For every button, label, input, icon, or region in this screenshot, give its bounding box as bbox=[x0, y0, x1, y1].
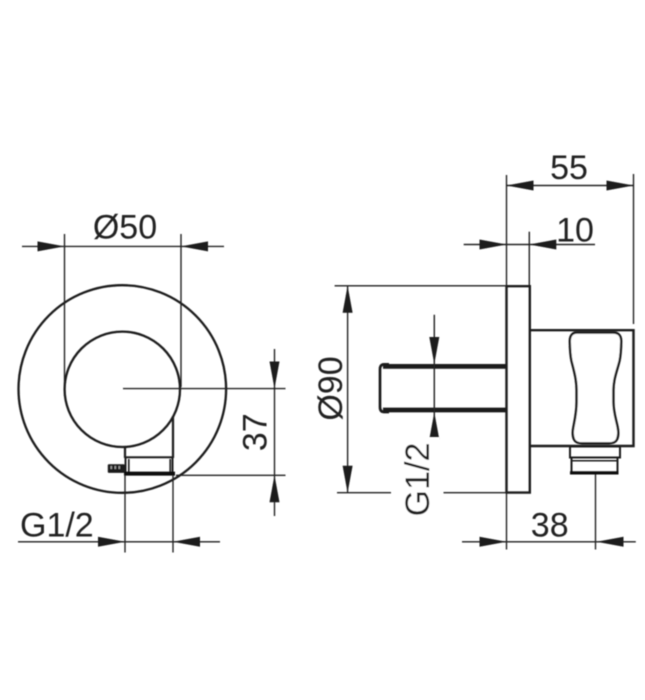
svg-text:Ø90: Ø90 bbox=[312, 356, 350, 420]
svg-text:Ø50: Ø50 bbox=[93, 208, 157, 246]
svg-text:10: 10 bbox=[556, 212, 594, 250]
svg-text:G1/2: G1/2 bbox=[20, 506, 94, 544]
svg-text:38: 38 bbox=[531, 507, 569, 545]
svg-text:G1/2: G1/2 bbox=[399, 443, 437, 517]
svg-text:37: 37 bbox=[237, 413, 275, 451]
svg-text:55: 55 bbox=[550, 149, 588, 187]
